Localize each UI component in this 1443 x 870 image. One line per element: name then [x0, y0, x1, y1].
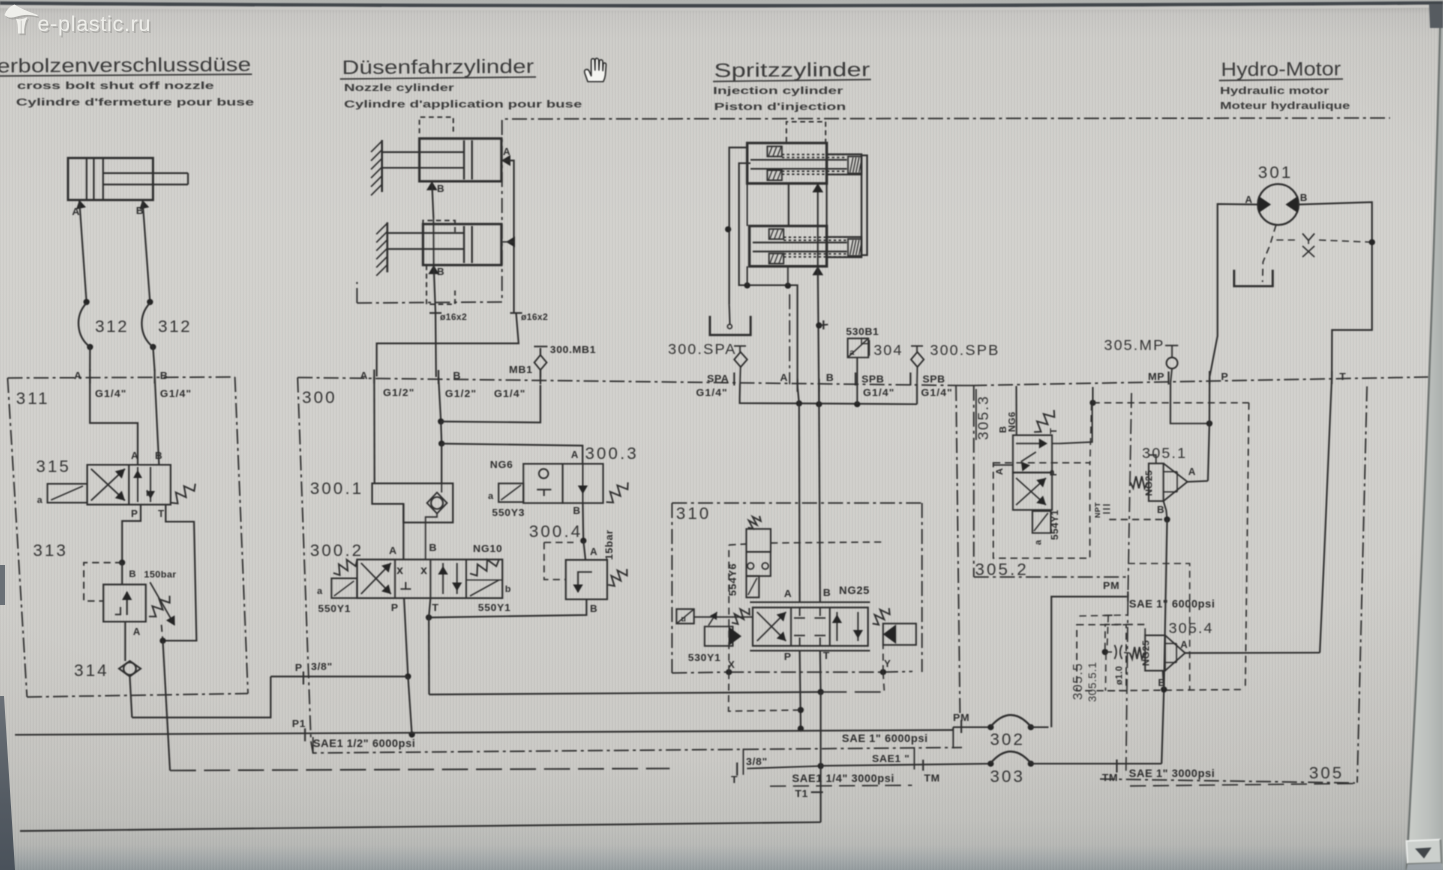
svg-text:300.2: 300.2: [310, 541, 364, 560]
svg-text:NPT: NPT: [1093, 502, 1102, 518]
svg-text:Cylindre d'application pour bu: Cylindre d'application pour buse: [344, 99, 582, 111]
svg-text:u: u: [681, 615, 686, 624]
svg-text:a: a: [37, 495, 43, 506]
svg-text:NG25: NG25: [839, 585, 870, 597]
svg-text:B: B: [437, 184, 444, 195]
svg-text:Cylindre d'fermeture pour buse: Cylindre d'fermeture pour buse: [16, 97, 254, 109]
svg-text:Injection cylinder: Injection cylinder: [713, 85, 843, 97]
svg-text:312: 312: [95, 317, 129, 336]
svg-text:T: T: [1339, 371, 1346, 383]
svg-text:B: B: [826, 372, 834, 384]
svg-text:T1: T1: [795, 788, 808, 800]
svg-text:SPA: SPA: [707, 373, 729, 385]
svg-text:NG25: NG25: [1144, 470, 1155, 496]
svg-text:300.SPB: 300.SPB: [930, 342, 1000, 359]
svg-text:301: 301: [1258, 163, 1293, 182]
svg-text:G1/4": G1/4": [160, 388, 192, 400]
svg-text:x: x: [397, 563, 404, 577]
svg-text:311: 311: [16, 389, 50, 408]
svg-text:T: T: [158, 509, 164, 520]
svg-text:SAE 1" 3000psi: SAE 1" 3000psi: [1129, 768, 1215, 780]
svg-text:SPB: SPB: [862, 374, 885, 386]
svg-text:305.2: 305.2: [975, 560, 1029, 579]
svg-text:A: A: [780, 372, 788, 384]
svg-text:G1/2": G1/2": [445, 388, 477, 400]
svg-text:TM: TM: [924, 773, 940, 785]
svg-text:TM: TM: [1102, 772, 1118, 784]
svg-text:b: b: [505, 584, 511, 595]
svg-text:A: A: [72, 206, 80, 218]
svg-text:SAE 1" 6000psi: SAE 1" 6000psi: [1129, 599, 1215, 611]
svg-text:B: B: [1157, 505, 1164, 516]
svg-text:A: A: [1180, 640, 1187, 651]
svg-text:300.SPA: 300.SPA: [668, 341, 737, 358]
svg-text:MB1: MB1: [509, 364, 533, 376]
svg-text:Nozzle cylinder: Nozzle cylinder: [344, 82, 454, 94]
svg-text:B: B: [453, 370, 461, 382]
svg-text:313: 313: [33, 541, 68, 560]
svg-text:x: x: [421, 563, 428, 577]
svg-text:T: T: [731, 774, 738, 786]
svg-text:315: 315: [36, 457, 71, 476]
svg-text:3/8": 3/8": [746, 756, 768, 768]
svg-text:P: P: [784, 651, 791, 663]
svg-text:310: 310: [676, 504, 711, 523]
svg-text:P: P: [1049, 469, 1060, 476]
svg-text:300.1: 300.1: [310, 479, 364, 498]
svg-text:B: B: [1300, 193, 1307, 204]
svg-text:302: 302: [990, 730, 1025, 749]
svg-text:Y: Y: [884, 659, 891, 670]
svg-text:SAE1 ": SAE1 ": [872, 753, 910, 765]
svg-text:305.1: 305.1: [1142, 445, 1187, 462]
svg-text:a: a: [488, 491, 494, 502]
svg-text:G1/4": G1/4": [696, 387, 728, 399]
svg-text:A: A: [590, 547, 597, 558]
svg-text:Spritzzylinder: Spritzzylinder: [714, 59, 871, 82]
svg-text:530Y1: 530Y1: [688, 652, 721, 664]
svg-text:A: A: [360, 370, 368, 382]
svg-text:B: B: [155, 451, 162, 462]
svg-text:Piston d'injection: Piston d'injection: [714, 101, 846, 113]
svg-text:A: A: [133, 627, 140, 638]
svg-text:554Y1: 554Y1: [1050, 509, 1061, 540]
svg-text:305.5.1: 305.5.1: [1087, 662, 1099, 702]
svg-text:550Y1: 550Y1: [318, 603, 351, 615]
svg-text:530B1: 530B1: [846, 326, 879, 338]
svg-text:304: 304: [874, 342, 904, 359]
svg-text:e-plastic.ru: e-plastic.ru: [38, 12, 151, 36]
svg-text:305.MP: 305.MP: [1104, 337, 1165, 354]
svg-text:P: P: [391, 602, 398, 614]
svg-text:3/8": 3/8": [311, 661, 333, 673]
svg-text:ø16x2: ø16x2: [521, 312, 548, 322]
svg-text:A: A: [571, 450, 578, 461]
svg-text:554Y6: 554Y6: [727, 563, 739, 596]
svg-text:Düsenfahrzylinder: Düsenfahrzylinder: [342, 56, 535, 79]
svg-text:A: A: [74, 370, 82, 382]
svg-text:300: 300: [302, 388, 337, 407]
svg-text:B: B: [160, 370, 168, 382]
svg-text:T: T: [823, 650, 830, 662]
svg-text:B: B: [429, 542, 437, 554]
svg-text:P1: P1: [292, 718, 306, 730]
svg-text:a: a: [850, 347, 855, 357]
svg-text:ø1.0: ø1.0: [1114, 666, 1124, 685]
svg-text:305.4: 305.4: [1169, 620, 1214, 637]
svg-text:G1/4": G1/4": [863, 387, 895, 399]
svg-text:Hydro-Motor: Hydro-Motor: [1221, 58, 1342, 81]
svg-text:ø16x2: ø16x2: [440, 312, 467, 322]
svg-text:B: B: [573, 506, 580, 517]
svg-text:B: B: [590, 604, 597, 615]
svg-text:SPB: SPB: [923, 374, 946, 386]
svg-text:NG25: NG25: [1141, 640, 1152, 666]
svg-text:Moteur hydraulique: Moteur hydraulique: [1220, 100, 1350, 112]
svg-text:B: B: [823, 587, 831, 599]
svg-text:A: A: [995, 468, 1006, 475]
svg-text:15bar: 15bar: [603, 529, 615, 560]
svg-text:P: P: [1221, 371, 1228, 383]
svg-text:PM: PM: [1103, 580, 1120, 592]
svg-text:300.4: 300.4: [529, 522, 583, 541]
svg-text:b: b: [146, 488, 151, 498]
svg-text:a: a: [317, 586, 323, 597]
svg-text:T: T: [432, 602, 439, 614]
svg-text:A: A: [131, 451, 138, 462]
svg-text:A: A: [1188, 467, 1195, 478]
svg-text:312: 312: [158, 317, 192, 336]
svg-text:550Y1: 550Y1: [478, 602, 511, 614]
svg-text:Hydraulic motor: Hydraulic motor: [1220, 85, 1329, 97]
svg-text:305.3: 305.3: [975, 395, 992, 440]
svg-text:NG6: NG6: [490, 459, 513, 471]
svg-text:SAE1 1/4" 3000psi: SAE1 1/4" 3000psi: [792, 773, 895, 785]
svg-text:303: 303: [990, 767, 1025, 786]
svg-text:cross bolt shut off nozzle: cross bolt shut off nozzle: [17, 80, 214, 92]
svg-text:300.3: 300.3: [585, 444, 639, 463]
svg-text:P: P: [295, 662, 302, 674]
svg-text:G1/4": G1/4": [494, 388, 526, 400]
svg-text:T: T: [1049, 428, 1060, 434]
svg-text:P: P: [131, 509, 138, 520]
svg-text:B: B: [129, 569, 136, 580]
svg-text:305: 305: [1309, 764, 1344, 783]
svg-text:SAE1 1/2" 6000psi: SAE1 1/2" 6000psi: [313, 738, 416, 750]
svg-text:A: A: [389, 545, 397, 557]
svg-text:A: A: [784, 588, 792, 600]
svg-text:SAE 1" 6000psi: SAE 1" 6000psi: [842, 733, 928, 745]
svg-text:314: 314: [74, 661, 109, 680]
svg-text:a: a: [1033, 539, 1043, 545]
svg-text:MP: MP: [1148, 371, 1165, 383]
svg-text:550Y3: 550Y3: [492, 507, 525, 519]
svg-text:NG10: NG10: [473, 543, 502, 555]
svg-text:150bar: 150bar: [144, 570, 176, 581]
svg-text:300.MB1: 300.MB1: [550, 344, 596, 356]
svg-text:G1/2": G1/2": [383, 387, 415, 399]
svg-text:G1/4": G1/4": [921, 387, 953, 399]
svg-text:G1/4": G1/4": [95, 388, 127, 400]
